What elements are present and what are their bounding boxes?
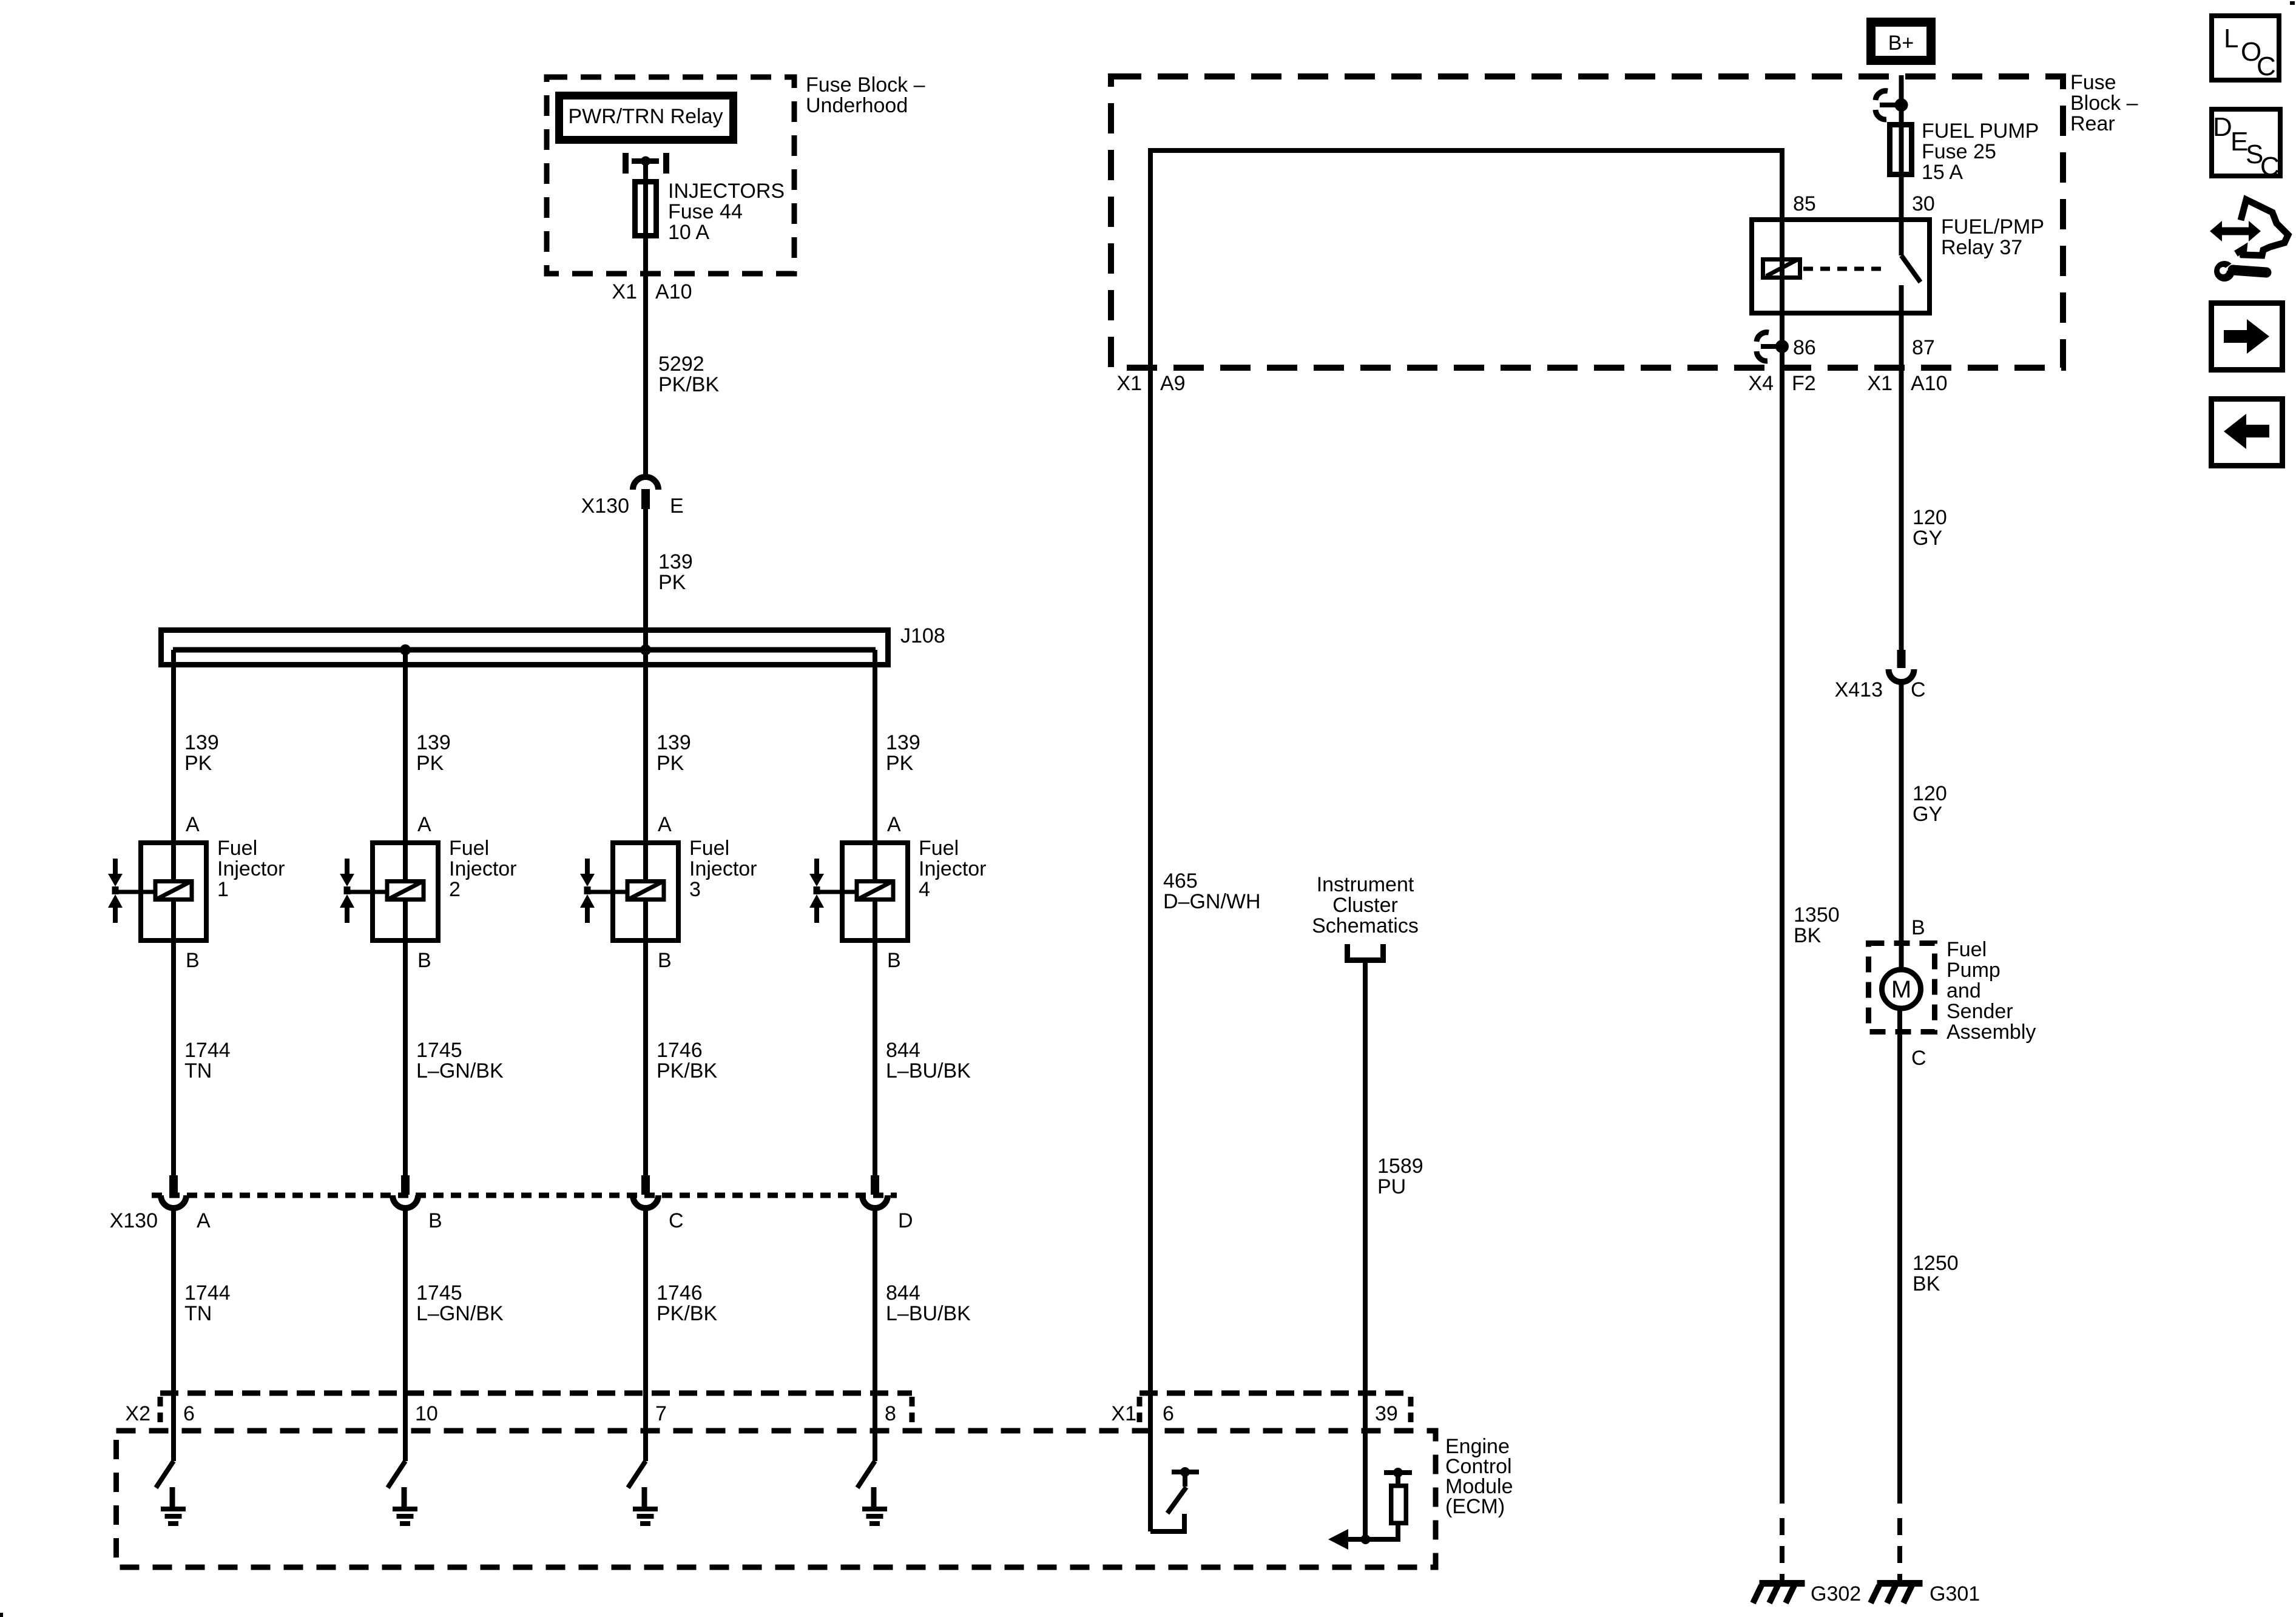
svg-text:465: 465 [1163, 869, 1198, 893]
pin B label (injector 2) [417, 949, 431, 972]
svg-text:C: C [2257, 52, 2276, 81]
svg-text:D–GN/WH: D–GN/WH [1163, 890, 1261, 913]
svg-text:X1: X1 [1111, 1402, 1136, 1425]
svg-text:PK: PK [658, 571, 686, 594]
wire 120 GY from X413 to fuel pump [1899, 682, 1904, 970]
relay pin label 87 [1912, 336, 1935, 359]
label FUEL PUMP Fuse 25 15 A [1922, 120, 2039, 184]
fuse block underhood (dashed box) [547, 77, 794, 274]
svg-text:X130: X130 [110, 1209, 158, 1232]
relay PWR/TRN Relay (title box) [559, 96, 734, 140]
label Fuel Pump and Sender Assembly [1947, 938, 2036, 1044]
wire 87 output from relay down to fuel pump [1899, 313, 1904, 650]
ECM internal ground (injector 2) [393, 1487, 417, 1526]
wire label 1589 PU [1377, 1155, 1423, 1198]
wire 1746 PK/BK from X130 to ECM pin 7 [643, 1208, 648, 1461]
wire 1250 BK from fuel pump to G301 [1897, 1008, 1902, 1504]
wire label 844 L&#8211;BU/BK (upper) [886, 1039, 971, 1082]
svg-text:G302: G302 [1811, 1582, 1861, 1605]
svg-text:A: A [186, 813, 200, 836]
wire label 1745 L&#8211;GN/BK (upper) [416, 1039, 504, 1082]
svg-text:1350: 1350 [1794, 903, 1840, 927]
ECM internal ground (injector 1) [161, 1487, 186, 1526]
svg-text:B: B [1911, 916, 1925, 939]
svg-text:PK: PK [184, 752, 212, 775]
fuel pump motor M [1882, 970, 1921, 1008]
injector 4 solenoid coil [817, 843, 893, 940]
svg-text:PK/BK: PK/BK [658, 373, 719, 396]
pin letter D (X130) [898, 1209, 913, 1232]
label G301 [1930, 1582, 1980, 1605]
pin B label (injector 1) [186, 949, 200, 972]
wire label 1746 PK/BK (upper) [657, 1039, 717, 1082]
dashed wire continuation to G302 [1780, 1518, 1784, 1580]
wire 1350 BK from relay 86 to G302 [1780, 346, 1784, 1504]
svg-text:139: 139 [657, 731, 691, 754]
svg-text:139: 139 [184, 731, 219, 754]
wire label 1746 PK/BK (lower) [657, 1281, 717, 1325]
fuel injector 4 (box) [842, 843, 908, 940]
wire 139 PK drop to fuel injector 3 [643, 650, 648, 843]
svg-text:139: 139 [658, 550, 693, 573]
svg-text:Fuse 25: Fuse 25 [1922, 140, 1996, 163]
injector 1 valve symbol [108, 859, 123, 923]
svg-text:3: 3 [689, 878, 701, 901]
injector 2 solenoid coil [347, 843, 424, 940]
svg-text:D: D [898, 1209, 913, 1232]
connector X130 pin C (inline) [633, 1175, 658, 1208]
svg-text:(ECM): (ECM) [1445, 1495, 1505, 1518]
svg-text:B: B [658, 949, 672, 972]
wire 139 PK drop to fuel injector 2 [403, 650, 408, 843]
relay pin label 30 [1912, 192, 1935, 215]
svg-text:B: B [428, 1209, 442, 1232]
svg-text:E: E [670, 495, 684, 518]
svg-text:PK: PK [657, 752, 684, 775]
svg-text:Fuse: Fuse [2070, 71, 2116, 94]
wire 844 L&#8211;BU/BK from X130 to ECM pin 8 [873, 1208, 877, 1461]
svg-text:B+: B+ [1888, 32, 1914, 55]
svg-text:4: 4 [919, 878, 930, 901]
svg-text:X1: X1 [1867, 372, 1893, 395]
injector 2 valve symbol [340, 859, 354, 923]
wire label 844 L&#8211;BU/BK (lower) [886, 1281, 971, 1325]
fuel pump and sender assembly (dashed box) [1869, 944, 1935, 1032]
pin label X1 | A10 (fuse block underhood) [612, 280, 692, 303]
label X130 (bottom row) [110, 1209, 158, 1232]
svg-text:Underhood: Underhood [806, 94, 908, 117]
pin letter C (X130) [669, 1209, 684, 1232]
ECM connector X1 pin row (dotted) [1140, 1393, 1411, 1427]
svg-text:5292: 5292 [658, 353, 704, 376]
ECM driver switch (injector 3) [628, 1461, 646, 1488]
wire label 5292 PK/BK [658, 353, 719, 396]
svg-text:A: A [197, 1209, 211, 1232]
svg-text:TN: TN [184, 1059, 212, 1082]
wire label 139 PK (injector 2) [416, 731, 451, 775]
junction dot on J108 bus (feed / injector 3 drop) [640, 644, 651, 655]
svg-text:B: B [887, 949, 901, 972]
junction dot on J108 bus (injector 2 drop) [400, 644, 411, 655]
svg-text:PK/BK: PK/BK [657, 1059, 717, 1082]
pin label B (fuel pump) [1911, 916, 1925, 939]
svg-text:Fuel: Fuel [689, 837, 729, 860]
wire label 120 GY (lower) [1913, 782, 1947, 826]
label J108 [900, 624, 945, 647]
svg-text:Schematics: Schematics [1312, 914, 1419, 937]
off-page connector bracket [1345, 944, 1386, 963]
svg-text:A: A [887, 813, 901, 836]
svg-text:139: 139 [416, 731, 451, 754]
pin letter A (X130) [197, 1209, 211, 1232]
label X130 E [581, 495, 684, 518]
ground G302 [1753, 1580, 1805, 1603]
svg-text:15 A: 15 A [1922, 161, 1963, 184]
ECM driver switch (injector 4) [857, 1461, 875, 1488]
svg-text:Fuel: Fuel [449, 837, 489, 860]
wire 1746 PK/BK from injector 3 to X130 [643, 940, 648, 1176]
fuse F44 INJECTORS 10A [635, 182, 657, 236]
svg-text:86: 86 [1793, 336, 1816, 359]
svg-text:BK: BK [1913, 1272, 1940, 1295]
ECM internal resistor and signal arrow (pin 39) [1328, 1468, 1412, 1550]
svg-text:GY: GY [1913, 803, 1942, 826]
svg-text:A10: A10 [655, 280, 692, 303]
wire label 1250 BK [1913, 1252, 1959, 1295]
svg-text:Cluster: Cluster [1332, 894, 1398, 917]
svg-text:X1: X1 [1116, 372, 1142, 395]
ECM connector X2 pin row (dotted) [160, 1393, 912, 1427]
connector row X130 (dotted line) [152, 1193, 897, 1198]
label FUEL/PMP Relay 37 [1941, 215, 2044, 259]
nav icon DESC [2212, 109, 2280, 181]
wire 85 coil feed: horizontal run and X1 A9 drop [1150, 148, 1782, 346]
pin label X1 | A10 (fuse block rear) [1867, 372, 1947, 395]
svg-text:M: M [1891, 976, 1911, 1003]
label X413 C [1835, 678, 1926, 701]
connector X130 pin B (inline) [393, 1175, 418, 1208]
svg-text:Fuse Block –: Fuse Block – [806, 73, 925, 96]
label X2 [125, 1402, 150, 1425]
wire 1745 L&#8211;GN/BK from injector 2 to X130 [403, 940, 408, 1176]
svg-text:PK: PK [886, 752, 914, 775]
svg-text:Injector: Injector [449, 857, 517, 880]
fuel injector 3 (box) [613, 843, 678, 940]
label Engine Control Module (ECM) [1445, 1435, 1513, 1518]
wire 139 PK drop to fuel injector 1 [171, 650, 176, 843]
svg-text:A10: A10 [1911, 372, 1948, 395]
ECM pin number 10 (X2) [415, 1402, 438, 1425]
svg-text:PU: PU [1377, 1175, 1406, 1198]
svg-text:Injector: Injector [217, 857, 285, 880]
label Fuel Injector 2 [449, 837, 517, 901]
connector X413 pin C (inline) [1889, 650, 1914, 682]
wire 1744 TN from X130 to ECM pin 6 [171, 1208, 176, 1461]
svg-text:FUEL PUMP: FUEL PUMP [1922, 120, 2039, 143]
connector X130 pin A (inline) [161, 1175, 186, 1208]
label Fuse Block - Rear [2070, 71, 2138, 135]
svg-text:10 A: 10 A [668, 221, 709, 244]
ECM internal ground (injector 4) [862, 1487, 887, 1526]
svg-text:L: L [2224, 24, 2238, 53]
wire 139 PK drop to fuel injector 4 [873, 650, 877, 843]
svg-text:and: and [1947, 979, 1981, 1002]
svg-text:A: A [417, 813, 431, 836]
svg-text:Block –: Block – [2070, 92, 2138, 115]
label Fuel Injector 3 [689, 837, 757, 901]
ECM internal ground (injector 3) [633, 1487, 658, 1526]
ECM low-side driver switch (pin 6 / 465) [1150, 1467, 1199, 1534]
ECM pin number 39 (X1) [1375, 1402, 1398, 1425]
nav icon forward arrow [2212, 303, 2283, 370]
wire label 139 PK [658, 550, 693, 594]
svg-text:X130: X130 [581, 495, 629, 518]
wire label 120 GY (upper) [1913, 506, 1947, 550]
svg-text:87: 87 [1912, 336, 1935, 359]
svg-text:X1: X1 [612, 280, 637, 303]
svg-text:6: 6 [1163, 1402, 1174, 1425]
fuse holder clips for Fuse 44 [623, 153, 669, 174]
svg-text:X4: X4 [1748, 372, 1774, 395]
wire label 1744 TN (upper) [184, 1039, 231, 1082]
svg-text:7: 7 [655, 1402, 667, 1425]
relay switch contact (pin 30 to 87) [1902, 255, 1921, 313]
pin label X1 | A9 [1116, 372, 1185, 395]
svg-text:C: C [2260, 152, 2280, 181]
svg-text:1744: 1744 [184, 1281, 231, 1305]
wire label 1744 TN (lower) [184, 1281, 231, 1325]
wire 465 D-GN/WH from X1 A9 to ECM [1148, 148, 1153, 1531]
svg-text:Fuse 44: Fuse 44 [668, 200, 743, 223]
svg-text:1745: 1745 [416, 1281, 462, 1305]
svg-text:PWR/TRN Relay: PWR/TRN Relay [568, 105, 723, 128]
svg-text:BK: BK [1794, 924, 1822, 947]
svg-text:Rear: Rear [2070, 112, 2115, 135]
relay pin label 86 [1793, 336, 1816, 359]
svg-text:PK: PK [416, 752, 444, 775]
svg-text:Injector: Injector [689, 857, 757, 880]
injector 3 valve symbol [580, 859, 595, 923]
wire from B+ to fuse 25 [1899, 75, 1904, 255]
svg-text:120: 120 [1913, 506, 1947, 529]
svg-text:A9: A9 [1160, 372, 1186, 395]
svg-text:L–GN/BK: L–GN/BK [416, 1059, 504, 1082]
fuel injector 2 (box) [373, 843, 438, 940]
svg-text:Assembly: Assembly [1947, 1021, 2036, 1044]
svg-text:1746: 1746 [657, 1039, 703, 1062]
svg-text:1744: 1744 [184, 1039, 231, 1062]
ECM driver switch (injector 1) [156, 1461, 174, 1488]
pin label X4 | F2 [1748, 372, 1815, 395]
svg-text:Fuel: Fuel [919, 837, 959, 860]
nav icon diagnostic (arrow, car outline, wrench) [2210, 200, 2288, 282]
svg-text:PK/BK: PK/BK [657, 1302, 717, 1325]
svg-text:1746: 1746 [657, 1281, 703, 1305]
svg-text:C: C [1911, 1047, 1926, 1070]
pin A label (injector 2) [417, 813, 431, 836]
injector 4 valve symbol [809, 859, 824, 923]
wire label 139 PK (injector 1) [184, 731, 219, 775]
label Fuel Injector 4 [919, 837, 987, 901]
svg-text:2: 2 [449, 878, 461, 901]
svg-text:844: 844 [886, 1039, 920, 1062]
svg-text:1745: 1745 [416, 1039, 462, 1062]
fuse clip and junction (fuse 25 top) [1876, 91, 1908, 120]
svg-text:844: 844 [886, 1281, 920, 1305]
wire 844 L&#8211;BU/BK from injector 4 to X130 [873, 940, 877, 1176]
nav icon back arrow [2212, 399, 2283, 466]
fuse clip and junction (relay pin 86) [1757, 333, 1789, 361]
svg-text:C: C [669, 1209, 684, 1232]
ECM pin number 8 (X2) [885, 1402, 896, 1425]
svg-text:Fuel: Fuel [217, 837, 257, 860]
label Instrument Cluster Schematics (off-page reference) [1312, 873, 1419, 937]
svg-text:Relay 37: Relay 37 [1941, 236, 2022, 259]
pin A label (injector 1) [186, 813, 200, 836]
svg-text:B: B [417, 949, 431, 972]
pin A label (injector 3) [658, 813, 672, 836]
label Fuel Injector 1 [217, 837, 285, 901]
svg-text:G301: G301 [1930, 1582, 1980, 1605]
injector 3 solenoid coil [587, 843, 664, 940]
svg-text:10: 10 [415, 1402, 438, 1425]
svg-text:Fuel: Fuel [1947, 938, 1987, 961]
nav icon LOC [2212, 16, 2279, 81]
svg-text:X413: X413 [1835, 678, 1883, 701]
wire 1745 L&#8211;GN/BK from X130 to ECM pin 10 [403, 1208, 408, 1461]
fuse block rear (dashed box) [1111, 76, 2063, 368]
svg-text:TN: TN [184, 1302, 212, 1325]
svg-text:39: 39 [1375, 1402, 1398, 1425]
label G302 [1811, 1582, 1861, 1605]
connector X130 pin E (inline) [633, 477, 658, 509]
ECM driver switch (injector 2) [388, 1461, 405, 1488]
power feed B+ (title box) [1871, 22, 1931, 61]
pin B label (injector 3) [658, 949, 672, 972]
relay FUEL/PMP Relay 37 (box) [1752, 220, 1930, 313]
ECM pin number 6 (X1) [1163, 1402, 1174, 1425]
ECM pin number 6 (X2) [183, 1402, 195, 1425]
label INJECTORS Fuse 44 10 A [668, 180, 785, 244]
wire from PWR/TRN relay through fuse 44 down to X130 connector [643, 161, 648, 476]
fuel injector 1 (box) [141, 843, 206, 940]
svg-text:Pump: Pump [1947, 959, 2001, 982]
svg-text:GY: GY [1913, 527, 1942, 550]
wire 1589 PU from instrument cluster to ECM pin 39 [1363, 962, 1368, 1539]
svg-text:1: 1 [217, 878, 229, 901]
fuse F25 FUEL PUMP 15A [1890, 125, 1912, 175]
svg-text:Injector: Injector [919, 857, 987, 880]
splice pack J108 [161, 630, 888, 665]
relay pin label 85 [1793, 192, 1816, 215]
ground G301 [1871, 1580, 1923, 1603]
pin A label (injector 4) [887, 813, 901, 836]
svg-text:L–GN/BK: L–GN/BK [416, 1302, 504, 1325]
svg-text:F2: F2 [1792, 372, 1816, 395]
svg-text:C: C [1911, 678, 1926, 701]
wire label 139 PK (injector 4) [886, 731, 920, 775]
svg-text:85: 85 [1793, 192, 1816, 215]
svg-text:X2: X2 [125, 1402, 150, 1425]
pin label C (fuel pump) [1911, 1047, 1926, 1070]
wire label 1745 L&#8211;GN/BK (lower) [416, 1281, 504, 1325]
svg-text:1250: 1250 [1913, 1252, 1959, 1275]
wire 139 PK from X130 to J108 splice [643, 508, 648, 650]
wire label 465 D-GN/WH [1163, 869, 1261, 913]
pin letter B (X130) [428, 1209, 442, 1232]
svg-text:FUEL/PMP: FUEL/PMP [1941, 215, 2044, 238]
svg-text:6: 6 [183, 1402, 195, 1425]
svg-text:Sender: Sender [1947, 1000, 2013, 1023]
svg-text:30: 30 [1912, 192, 1935, 215]
ECM pin number 7 (X2) [655, 1402, 667, 1425]
svg-text:INJECTORS: INJECTORS [668, 180, 785, 203]
pin B label (injector 4) [887, 949, 901, 972]
svg-text:L–BU/BK: L–BU/BK [886, 1059, 971, 1082]
svg-text:D: D [2213, 112, 2232, 142]
svg-text:L–BU/BK: L–BU/BK [886, 1302, 971, 1325]
wire label 1350 BK [1794, 903, 1840, 947]
svg-text:8: 8 [885, 1402, 896, 1425]
wire 1744 TN from injector 1 to X130 [171, 940, 176, 1176]
svg-text:B: B [186, 949, 200, 972]
svg-text:139: 139 [886, 731, 920, 754]
connector X130 pin D (inline) [862, 1175, 888, 1208]
dashed wire continuation to G301 [1897, 1518, 1902, 1580]
wire label 139 PK (injector 3) [657, 731, 691, 775]
injector 1 solenoid coil [115, 843, 192, 940]
relay internal dashed link [1803, 267, 1881, 271]
label X1 (ECM) [1111, 1402, 1136, 1425]
svg-text:J108: J108 [900, 624, 945, 647]
svg-text:A: A [658, 813, 672, 836]
label Fuse Block - Underhood [806, 73, 925, 117]
svg-text:Instrument: Instrument [1317, 873, 1414, 896]
engine control module ECM (dashed box) [116, 1431, 1436, 1567]
svg-text:1589: 1589 [1377, 1155, 1423, 1178]
svg-text:120: 120 [1913, 782, 1947, 805]
relay coil [1763, 260, 1800, 278]
